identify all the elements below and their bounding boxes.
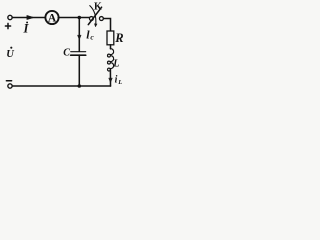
svg-text:R: R — [114, 31, 123, 45]
terminal bottom-left — [8, 84, 12, 88]
wire C to bottom — [78, 55, 80, 86]
inductor L — [108, 49, 114, 71]
node bottom junction — [78, 84, 82, 88]
wire R to L — [110, 45, 112, 49]
wire switch to right branch — [104, 19, 111, 32]
capacitor C — [71, 51, 86, 53]
terminal top-left — [8, 15, 12, 19]
svg-text:L: L — [112, 59, 119, 70]
switch K blade — [88, 7, 101, 24]
capacitor branch wire upper — [78, 18, 80, 52]
svg-text:K: K — [94, 2, 102, 13]
wire top-left — [12, 17, 45, 19]
plus sign — [5, 23, 10, 28]
label U dot — [10, 47, 12, 49]
arrow i_c — [78, 35, 82, 39]
svg-text:A: A — [48, 13, 57, 25]
switch K right contact — [99, 17, 103, 21]
wire node to switch — [79, 17, 89, 19]
current arrow i — [27, 15, 34, 19]
resistor R — [107, 31, 114, 45]
svg-text:L: L — [117, 79, 122, 86]
wire ammeter to node — [58, 17, 79, 19]
minus sign — [6, 80, 11, 82]
wire L to bottom — [109, 69, 111, 86]
ammeter A — [45, 11, 58, 24]
svg-text:C: C — [63, 48, 70, 59]
switch K left contact — [89, 17, 93, 21]
node top junction — [78, 16, 82, 20]
svg-text:i: i — [115, 74, 118, 85]
arrow i_L — [109, 78, 113, 82]
switch K motion arrow — [90, 6, 96, 25]
bottom wire — [12, 85, 110, 87]
